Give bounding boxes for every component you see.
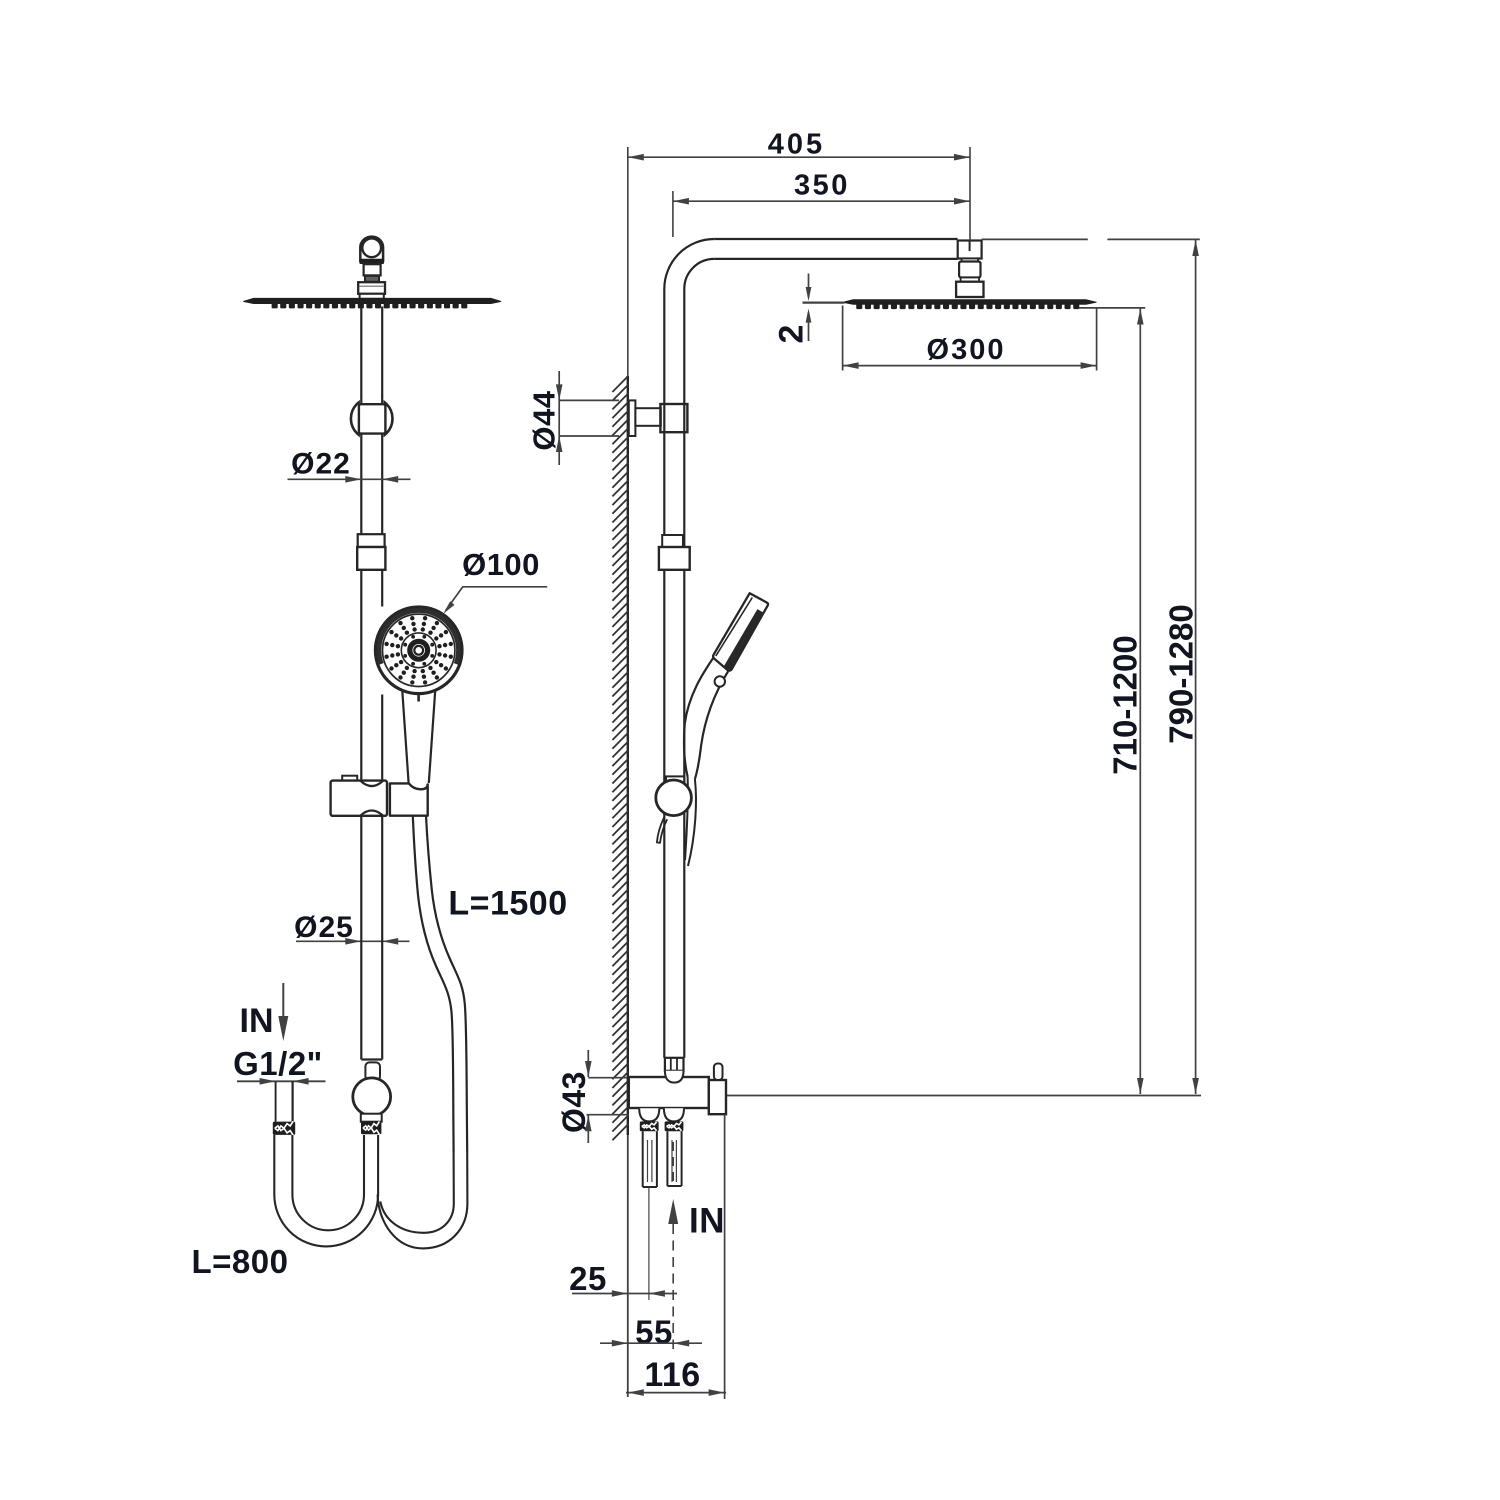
arm end connector above head (side view) <box>956 241 983 298</box>
svg-text:2: 2 <box>773 325 811 344</box>
diverter ball valve (front view) <box>353 1078 391 1122</box>
hand shower face (front view) with spray dots <box>374 605 464 695</box>
svg-text:G1/2": G1/2" <box>233 1045 323 1082</box>
vertical dimension line 710-1200 <box>1107 309 1144 1095</box>
dimension 350 arm projection <box>673 170 970 238</box>
svg-text:405: 405 <box>768 129 825 161</box>
reference line at arm level to 790-1280 dimension <box>982 238 1200 240</box>
G1/2 inlet pipe (front view) <box>276 1081 293 1121</box>
dimension Ø44 for wall bracket <box>527 371 620 465</box>
riser pipe lower segment (front view) <box>361 570 382 780</box>
dimension 55 wall to IN axis <box>600 1314 702 1351</box>
IN label with up arrow (side view inlet) <box>668 1142 725 1349</box>
overhead shower head plate (side view) <box>843 299 1097 305</box>
top knob of overhead shower arm (front view) <box>359 237 384 264</box>
svg-text:IN: IN <box>240 1002 274 1040</box>
svg-text:116: 116 <box>644 1356 700 1394</box>
svg-text:790-1280: 790-1280 <box>1163 604 1200 743</box>
svg-text:350: 350 <box>794 170 850 202</box>
svg-text:Ø100: Ø100 <box>462 547 540 582</box>
wall mount bracket (side view) <box>629 400 688 436</box>
dimension 2 head plate thickness <box>773 274 845 344</box>
wall hatching <box>612 376 628 1140</box>
riser bottom striped nut (side view) <box>665 1058 684 1071</box>
dimension 116 wall to mixer front <box>626 1114 726 1399</box>
dimension 25 wall to first inlet <box>569 1260 677 1297</box>
hose from handle tucking behind pipe (side view) <box>685 777 696 867</box>
riser pipe (side view) <box>664 289 684 1058</box>
riser pipe bottom segment and cap (front view) <box>361 816 382 1060</box>
leader and label Ø100 for hand shower <box>443 547 547 614</box>
riser to mixer dome joint (side view) <box>665 1071 684 1083</box>
overhead shower head plate (front view) <box>243 298 501 304</box>
svg-text:Ø44: Ø44 <box>527 390 562 450</box>
slide stop collar (side view) <box>659 535 690 570</box>
hose nut under diverter <box>361 1122 381 1135</box>
svg-text:IN: IN <box>689 1202 725 1241</box>
svg-text:L=800: L=800 <box>192 1243 289 1280</box>
wall line (side view) <box>627 154 629 1397</box>
left inlet pipe under mixer (side view) <box>643 1131 657 1187</box>
dimension Ø300 head diameter <box>843 306 1097 371</box>
svg-text:710-1200: 710-1200 <box>1107 635 1144 774</box>
G1/2 inch label with thread-size arrows <box>233 1045 325 1085</box>
right outlet dome and nut under mixer <box>664 1108 684 1121</box>
vertical dimension line 790-1280 <box>1163 240 1200 1094</box>
slide bracket tab and ball joint (side view) <box>656 776 692 842</box>
mixer body (side view) <box>629 1064 726 1115</box>
hand shower handle cone (front view) <box>402 690 435 784</box>
svg-text:Ø25: Ø25 <box>294 911 354 944</box>
hand shower head (side view) <box>713 593 768 670</box>
dimension Ø22 with arrows to pipe <box>288 448 411 483</box>
left outlet dome and nut under mixer <box>639 1108 659 1121</box>
height adjuster collar on riser (front view) <box>357 534 385 570</box>
hand shower handle (side view) <box>684 657 728 779</box>
svg-text:55: 55 <box>635 1314 673 1351</box>
centerline extension from left inlet <box>648 1187 650 1300</box>
riser pipe between ball joint and adjuster (front view) <box>361 434 382 535</box>
riser pipe upper segment (front view) <box>361 307 382 403</box>
spray teeth under head plate (side view) <box>856 304 1079 309</box>
reference line from head plate to 710-1200 dimension <box>1079 307 1146 309</box>
dimension 405 overall arm reach <box>628 129 970 241</box>
svg-text:25: 25 <box>569 1260 607 1297</box>
knob neck and upper connector boxes <box>358 264 385 299</box>
hand shower hose from bracket down right side (L=1500 hose) <box>413 816 467 1152</box>
dimension Ø25 with arrows to pipe <box>294 911 409 945</box>
svg-text:Ø22: Ø22 <box>291 448 351 481</box>
shower arm horizontal pipe with elbow (side view) <box>664 239 957 289</box>
right inlet pipe under mixer (side view) <box>667 1131 681 1186</box>
reference line at mixer level for vertical dimensions <box>726 1095 1201 1097</box>
svg-text:L=1500: L=1500 <box>448 885 567 923</box>
hand shower hose U-bend at bottom (right loop) <box>378 1152 468 1248</box>
svg-text:Ø300: Ø300 <box>927 334 1006 366</box>
hose nut at G1/2 inlet <box>273 1122 295 1135</box>
dimension Ø43 mixer body <box>556 1050 629 1143</box>
spray nozzle teeth under head plate (front view) <box>272 303 468 308</box>
supply hose L=800 U-bend between inlet and diverter <box>274 1135 378 1246</box>
slider bracket on riser (front view) <box>331 776 428 816</box>
diverter valve stem (front view) <box>365 1062 380 1080</box>
IN label with down arrow (front view inlet) <box>240 983 289 1041</box>
ball joint on riser pipe (front view) <box>351 395 393 442</box>
